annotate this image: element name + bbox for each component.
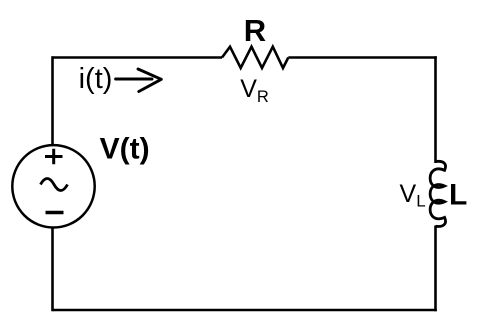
wire bottom bbox=[53, 309, 437, 312]
AC source V(t) circle bbox=[12, 145, 94, 227]
svg-text:i(t): i(t) bbox=[79, 63, 113, 95]
svg-text:R: R bbox=[244, 13, 266, 48]
wire top-left segment bbox=[53, 56, 223, 59]
wire top-right segment bbox=[288, 56, 437, 59]
source sine symbol bbox=[41, 179, 68, 191]
wire left lower bbox=[51, 227, 54, 311]
current arrow bbox=[116, 69, 162, 92]
wire right upper bbox=[434, 56, 437, 163]
wire left upper bbox=[51, 56, 54, 146]
svg-text:L: L bbox=[449, 178, 467, 211]
wire right lower bbox=[434, 226, 437, 312]
resistor R (zigzag) bbox=[222, 47, 288, 68]
source minus sign bbox=[46, 211, 64, 214]
source plus sign bbox=[45, 149, 63, 165]
svg-text:V(t): V(t) bbox=[100, 132, 150, 165]
inductor L (coil) bbox=[430, 161, 445, 226]
